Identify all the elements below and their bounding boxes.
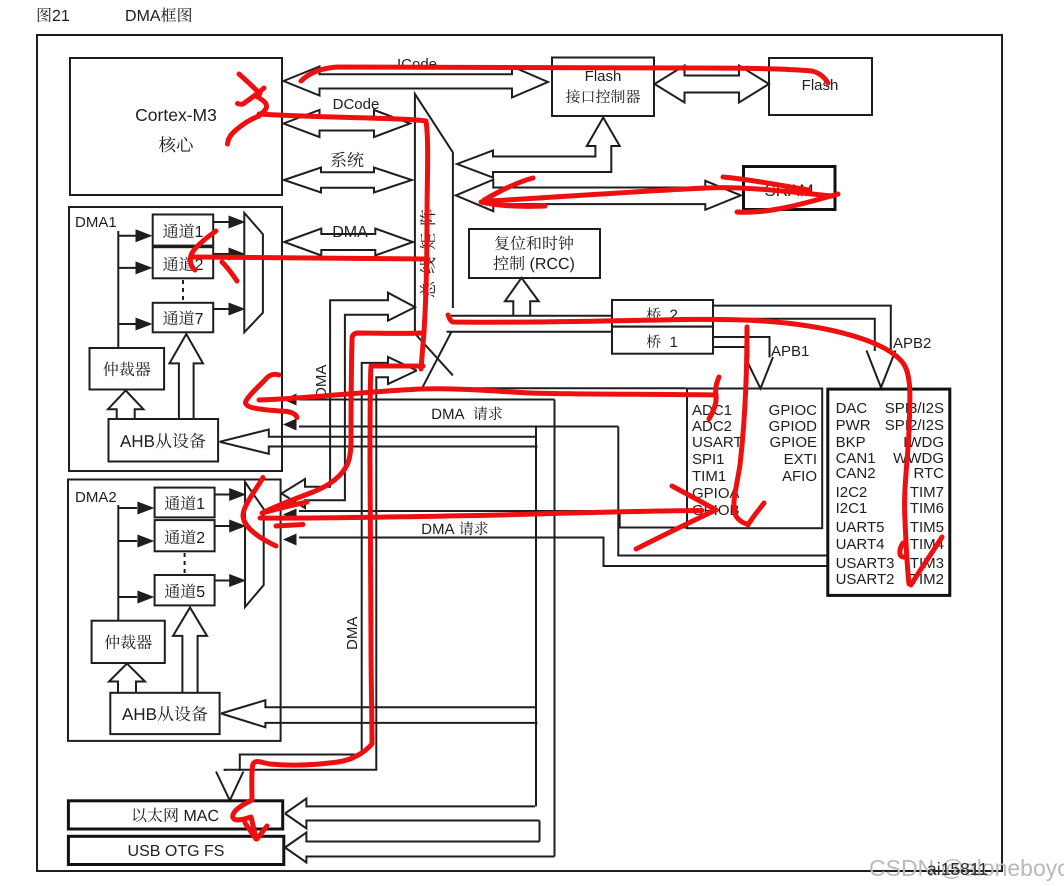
DMA1 channel1 box [153, 215, 214, 246]
svg-text:PWR: PWR [836, 417, 871, 434]
red stroke: DMA request 1 line [259, 389, 716, 400]
red stroke: DCode line down the matrix [259, 114, 428, 369]
svg-text:TIM5: TIM5 [910, 519, 944, 536]
svg-text:Flash: Flash [802, 77, 839, 94]
DMA1 feeder arrowheads [136, 229, 153, 330]
APB1 peripherals box [687, 389, 822, 529]
svg-text:ai15811: ai15811 [927, 859, 988, 879]
U bend MAC to USB [539, 821, 541, 842]
DMA2 box [68, 480, 281, 741]
DMA1 channel output lines [213, 222, 230, 309]
DMA1 output arrowheads [229, 216, 246, 316]
ethernet MAC box [68, 801, 282, 829]
title 图21 DMA框图 [38, 8, 192, 23]
svg-text:USART3: USART3 [836, 555, 895, 572]
svg-text:DMA: DMA [313, 365, 330, 398]
red stroke: long vertical to ethernet [233, 366, 423, 838]
DMA2 AHB slave box [110, 693, 219, 734]
red stroke: SRAM arrow [484, 178, 533, 200]
DMA2 channel5 box [155, 575, 215, 605]
DMA request bus 1 bottom line [299, 426, 618, 428]
bus matrix shape [415, 94, 453, 334]
DMA request bus 2 top line with corner wire [299, 511, 688, 528]
svg-text:DMA2: DMA2 [75, 489, 117, 506]
svg-text:BKP: BKP [836, 434, 866, 451]
APB1 pipe from bridge1 [713, 337, 770, 358]
svg-text:TIM6: TIM6 [910, 500, 944, 517]
DMA request bus 2 bottom line with wire to APB box [299, 538, 828, 567]
bent arrow busmatrix to FlashIF [457, 118, 620, 178]
svg-text:GPIOD: GPIOD [769, 418, 818, 435]
DMA2 feeder arrowheads [137, 502, 154, 604]
DMA1 trapezoid [244, 213, 263, 332]
svg-text:EXTI: EXTI [784, 451, 817, 468]
svg-text:TIM7: TIM7 [910, 484, 944, 501]
DMA1 AHB slave box [109, 419, 219, 462]
APB2 pipe from bridge2 [713, 306, 891, 351]
red stroke: vertical to GPIOB arrow [734, 327, 747, 524]
svg-text:DAC: DAC [836, 400, 868, 417]
DMA1 feeder line [118, 231, 137, 348]
RCC box [469, 229, 600, 278]
svg-text:USB OTG FS: USB OTG FS [128, 843, 225, 860]
系统 bus double arrow [284, 168, 412, 193]
DCode bus double arrow [284, 110, 411, 137]
bus1 arrowhead bottom [283, 419, 297, 431]
APB2 peripherals left column [836, 400, 895, 588]
DMA1 channel up arrow [170, 334, 204, 419]
bridge2 box [612, 300, 713, 327]
DMA2 arbiter box [92, 621, 165, 663]
bus2 arrowhead bottom [283, 534, 297, 546]
funnel bottom line [422, 387, 686, 389]
SRAM box [744, 167, 836, 210]
DMA1 AHB arrow [220, 430, 538, 454]
Flash interface controller box [552, 58, 654, 117]
DMA2 output arrowheads [229, 488, 246, 587]
bridge1 box [612, 327, 713, 354]
USB OTG FS box [68, 836, 283, 864]
conduit DMA2 to busmatrix: right head [282, 293, 416, 508]
dashed line channels DMA1 [182, 280, 184, 301]
dashed line channels DMA2 [184, 553, 186, 573]
svg-text:CAN2: CAN2 [836, 465, 876, 482]
DMA1 arbiter up arrow [108, 391, 143, 420]
svg-text:I2C1: I2C1 [836, 500, 868, 517]
bus2 arrowhead top [283, 509, 297, 521]
red stroke: DMA2 cluster arrow [243, 478, 276, 547]
svg-text:TIM1: TIM1 [692, 468, 726, 485]
DMA2 arbiter up arrow [109, 664, 145, 693]
DMA request bus 1 top line [299, 399, 555, 401]
DMA2 trapezoid [245, 482, 264, 607]
svg-text:USART: USART [692, 434, 743, 451]
DMA2 feeder line [118, 505, 137, 621]
DMA1 channel2 box [153, 247, 214, 278]
DMA2 channel1 box [155, 488, 215, 518]
svg-text:APB2: APB2 [893, 335, 931, 352]
svg-text:Flash: Flash [585, 68, 622, 85]
svg-text:DMA: DMA [332, 224, 368, 241]
wire bus1 to APB1 box [618, 427, 827, 556]
APB1 peripherals left column [692, 402, 743, 519]
pipe busmatrix to bridges lower [447, 331, 613, 333]
APB2 peripherals box [828, 389, 950, 595]
svg-text:I2C2: I2C2 [836, 484, 868, 501]
red stroke: scribble at Cortex corner [239, 74, 260, 94]
wall B bus1 to USB shaft [554, 400, 556, 857]
ethernet V arrowhead [216, 772, 243, 801]
bus matrix bottom diagonal 2 [422, 332, 452, 389]
RCC up arrow [505, 278, 539, 316]
conduit busmatrix to ethernet: head and down leg [225, 357, 417, 771]
svg-text:UART5: UART5 [836, 519, 885, 536]
Flash box [769, 58, 872, 115]
SRAM double arrow [456, 180, 741, 212]
svg-text:GPIOC: GPIOC [769, 402, 818, 419]
wall A bus1 to MAC shaft [535, 427, 537, 807]
DMA1 box [69, 207, 282, 471]
svg-text:SPI2/I2S: SPI2/I2S [885, 417, 944, 434]
svg-text:SPI1: SPI1 [692, 451, 725, 468]
DMA2 channel2 box [155, 520, 215, 551]
ICode bus double arrow [284, 67, 549, 98]
DMA request label 1 [432, 406, 502, 420]
DMA request label 2 [422, 521, 488, 535]
svg-text:ADC2: ADC2 [692, 418, 732, 435]
svg-text:UART4: UART4 [836, 536, 885, 553]
DMA2 channel up arrow [173, 608, 207, 693]
red stroke: ICode line [301, 67, 828, 83]
Flash to FlashIF double arrow [655, 66, 770, 103]
Cortex-M3 box [70, 58, 282, 195]
svg-text:DCode: DCode [333, 96, 380, 113]
DMA2 channel output lines [215, 495, 231, 581]
MAC white arrow [285, 799, 540, 829]
svg-text:USART2: USART2 [836, 571, 895, 588]
svg-text:RTC: RTC [913, 465, 944, 482]
svg-text:Cortex-M3: Cortex-M3 [135, 105, 217, 125]
red stroke: branch to DMA2 cluster [264, 333, 424, 512]
APB1 down arrowhead [745, 357, 773, 389]
DMA bus double arrow [284, 229, 413, 256]
red stroke: hook at DMA1 channel2 [190, 231, 216, 270]
svg-text:SPI3/I2S: SPI3/I2S [885, 400, 944, 417]
bus matrix bottom diagonal 1 [415, 334, 453, 376]
svg-text:AFIO: AFIO [782, 468, 817, 485]
red stroke: bridge line sweeping to TIM2 [448, 315, 910, 584]
APB2 peripherals right column [885, 400, 944, 588]
DMA1 arbiter box [90, 348, 165, 390]
pipe busmatrix to bridges upper [451, 315, 612, 317]
DMA1 channel7 box [153, 303, 214, 333]
svg-text:ICode: ICode [397, 56, 437, 73]
APB1 peripherals right column [769, 402, 818, 485]
USB white arrow [285, 833, 555, 863]
bus matrix vertical label 总线矩阵 [420, 210, 436, 298]
svg-text:GPIOE: GPIOE [769, 434, 817, 451]
svg-text:APB1: APB1 [771, 343, 809, 360]
bus1 arrowhead top [283, 394, 297, 406]
APB2 down arrowhead [867, 351, 896, 388]
svg-text:DMA1: DMA1 [75, 214, 117, 231]
svg-text:DMA: DMA [344, 617, 361, 650]
DMA2 AHB arrow [221, 700, 538, 727]
